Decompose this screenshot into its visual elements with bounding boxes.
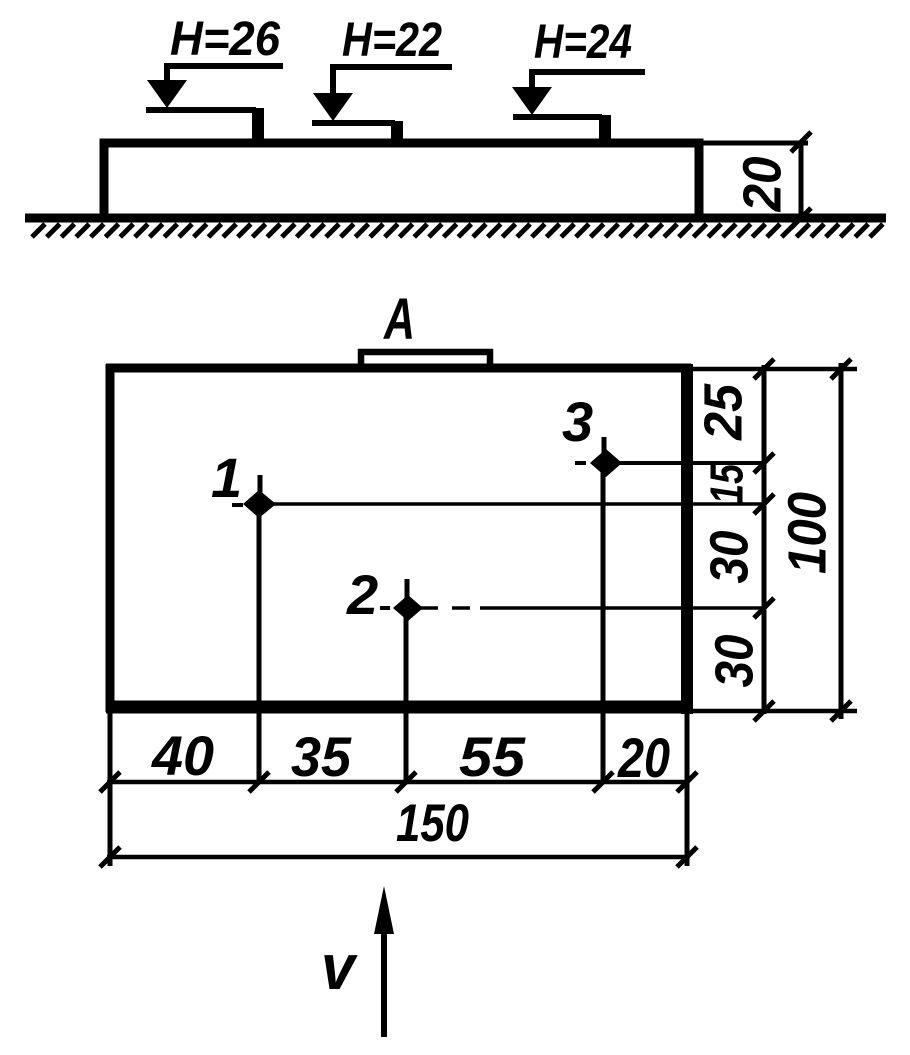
point 1 horizontal line: [268, 502, 766, 506]
base line H=22: [312, 120, 395, 126]
svg-text:40: 40: [151, 724, 214, 787]
svg-text:v: v: [321, 931, 358, 1003]
shelf line H=24: [532, 72, 645, 90]
point 3 horizontal line: [613, 461, 766, 465]
svg-text:H=24: H=24: [534, 16, 632, 69]
point 3 diamond: [590, 449, 622, 477]
svg-text:30: 30: [699, 531, 759, 584]
svg-text:1: 1: [211, 446, 242, 509]
svg-text:30: 30: [704, 635, 764, 688]
right dimension line (chain): [762, 365, 767, 714]
benchmark H=26: [146, 13, 283, 141]
svg-text:100: 100: [777, 492, 837, 574]
plan rectangle bottom edge: [106, 701, 693, 714]
tick on slab H=24: [599, 115, 611, 142]
point 1 stub: [258, 475, 263, 494]
svg-text:20: 20: [732, 157, 792, 213]
benchmark H=24: [512, 16, 645, 142]
arrow v head: [374, 886, 394, 934]
bottom right edge extension: [685, 707, 690, 866]
svg-text:150: 150: [396, 794, 469, 853]
slab top extension line for dim 20: [699, 141, 808, 146]
slab outline: [104, 143, 699, 218]
slash tick bottom of dim 20: [791, 208, 811, 228]
svg-text:H=26: H=26: [170, 13, 280, 66]
svg-text:35: 35: [291, 725, 352, 788]
ground line: [25, 214, 886, 223]
arrow v shaft: [381, 928, 387, 1037]
shelf line H=26: [167, 66, 283, 82]
svg-text:2: 2: [346, 563, 378, 626]
triangle H=22: [313, 93, 353, 121]
svg-text:15: 15: [701, 463, 753, 504]
slash ticks bottom chain: [100, 772, 697, 792]
slash ticks 150: [100, 847, 697, 867]
benchmark H=22: [312, 14, 452, 141]
svg-text:H=22: H=22: [342, 14, 442, 67]
svg-text:20: 20: [617, 726, 670, 789]
overall right dimension line 100: [839, 363, 844, 719]
plan rectangle right edge: [681, 364, 693, 714]
triangle H=24: [512, 87, 552, 115]
slash tick top of dim 20: [791, 132, 811, 152]
dimension line 20 (vertical): [799, 142, 804, 218]
plan rectangle left edge: [106, 364, 115, 712]
point 2 horizontal line: [417, 606, 766, 610]
point 3 left dash: [575, 461, 586, 465]
point 2 vertical line: [404, 614, 409, 784]
plan rectangle top edge: [106, 364, 691, 373]
point 2 stub: [405, 579, 410, 598]
point 3 vertical line: [601, 470, 606, 784]
bottom dimension line (chain): [107, 780, 689, 785]
base line H=24: [513, 114, 602, 120]
overall bottom dimension line 150: [107, 855, 689, 860]
tab on top edge: [361, 352, 490, 369]
right bottom extension line: [690, 709, 857, 714]
svg-text:55: 55: [459, 725, 526, 788]
bottom left edge extension: [108, 707, 113, 866]
point 2 left dash: [380, 606, 390, 610]
triangle H=26: [147, 80, 187, 108]
svg-text:A: A: [383, 287, 415, 352]
shelf line H=22: [333, 67, 452, 96]
base line H=26: [146, 107, 256, 113]
svg-text:25: 25: [693, 383, 753, 441]
tick on slab H=26: [252, 108, 264, 141]
slash ticks chain dim line: [754, 359, 774, 721]
point 2 diamond: [393, 595, 423, 621]
point 1 diamond: [243, 490, 276, 518]
point 1 left dash: [232, 503, 243, 507]
right top extension line: [693, 367, 857, 372]
svg-text:3: 3: [562, 390, 593, 453]
slash ticks 100: [831, 359, 851, 721]
point 3 stub: [602, 437, 607, 453]
tick on slab H=22: [391, 121, 403, 141]
point 1 vertical line: [257, 508, 262, 784]
ground hatching: [32, 224, 883, 237]
